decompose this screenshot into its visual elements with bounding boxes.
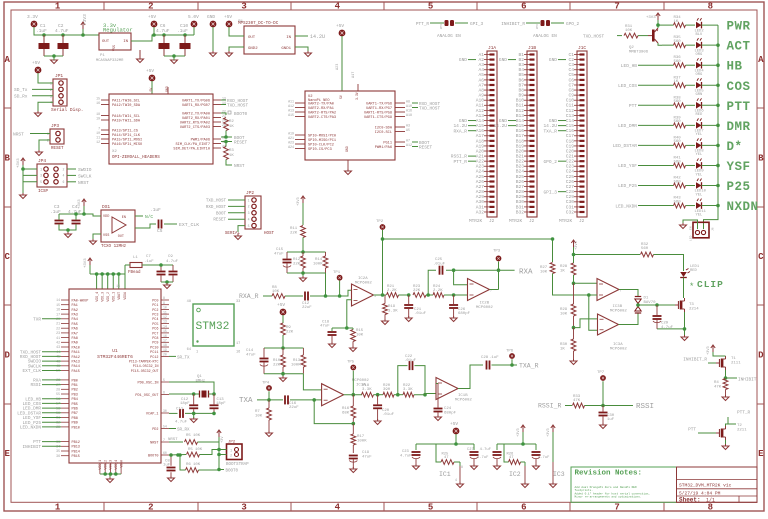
row label C left: [4, 252, 10, 262]
resistor R11 22K: [290, 226, 305, 253]
wire vdd stub: [106, 272, 110, 289]
capacitor C20 .01uF: [373, 395, 395, 420]
wire r13 to plus: [303, 374, 321, 390]
node RXA: [519, 269, 533, 277]
supply pad 5.0V: [188, 14, 199, 35]
svg-text:PTT: PTT: [727, 100, 751, 114]
svg-text:2: 2: [148, 503, 153, 513]
svg-text:4: 4: [335, 2, 341, 12]
svg-text:2111: 2111: [731, 362, 741, 366]
label BOOT0 x2: [221, 111, 248, 117]
svg-text:SWDIO: SWDIO: [78, 167, 92, 173]
svg-text:R21: R21: [387, 285, 395, 289]
svg-text:C23: C23: [566, 164, 575, 170]
capacitor C18 47uF: [320, 321, 337, 344]
svg-text:R22: R22: [403, 384, 411, 388]
resistor R2 1K: [224, 118, 235, 131]
svg-text:B19: B19: [516, 143, 525, 149]
svg-text:PC5: PC5: [152, 323, 158, 327]
svg-text:3.3K: 3.3K: [388, 310, 398, 314]
svg-text:PTT_R: PTT_R: [453, 159, 467, 165]
svg-text:PC7: PC7: [152, 332, 158, 336]
svg-text:B18: B18: [516, 138, 525, 144]
wire LED_NXDN to R43: [638, 205, 674, 207]
svg-text:R20: R20: [383, 384, 391, 388]
svg-text:20: 20: [163, 353, 167, 357]
supply pad GND dcdc: [207, 14, 216, 27]
svg-text:36: 36: [56, 454, 60, 458]
svg-text:TCXO 12MHz: TCXO 12MHz: [101, 245, 127, 249]
svg-text:A12: A12: [288, 104, 294, 108]
node GPO_2 at J1C: [543, 159, 557, 165]
wire jp1 gnd: [38, 102, 53, 112]
svg-text:A13: A13: [288, 109, 294, 113]
svg-text:C18: C18: [566, 138, 575, 144]
svg-text:CLIP: CLIP: [697, 279, 724, 290]
oscillator DS1 TCXO 12MHz: [101, 204, 135, 249]
resistor R30 1K: [560, 328, 576, 360]
svg-text:PA0-WKUP: PA0-WKUP: [72, 299, 89, 303]
svg-text:I2C0-SDA: I2C0-SDA: [375, 126, 393, 130]
wire jp2 gnd: [238, 226, 245, 232]
svg-text:19: 19: [96, 117, 100, 121]
svg-text:+5V: +5V: [146, 68, 154, 74]
svg-text:14.2U: 14.2U: [543, 123, 557, 129]
column label 1 bottom: [55, 503, 61, 513]
column label 6 bottom: [521, 503, 526, 513]
svg-text:4.7uF: 4.7uF: [55, 28, 69, 34]
svg-text:R37: R37: [674, 76, 682, 80]
resistor R21 2.2K: [387, 285, 399, 297]
svg-text:PC13-TAMPER-RTC: PC13-TAMPER-RTC: [129, 360, 159, 364]
svg-text:B24: B24: [516, 169, 525, 175]
label HB: [727, 60, 743, 74]
wire LED_DMR to R39: [638, 124, 674, 126]
svg-text:RSSI: RSSI: [636, 403, 654, 411]
ground c18: [329, 342, 336, 348]
svg-text:P1: P1: [100, 54, 105, 58]
svg-text:INHIBIT: INHIBIT: [23, 445, 42, 450]
test point TP5: [347, 361, 356, 395]
ground c34: [65, 232, 72, 238]
svg-text:VSS: VSS: [103, 234, 109, 238]
column label 2 bottom: [148, 503, 153, 513]
svg-text:C27: C27: [467, 448, 474, 452]
svg-text:3.3K: 3.3K: [362, 388, 372, 392]
wire u1 LED_HB: [42, 398, 61, 400]
ground c21: [405, 316, 412, 322]
ground: [51, 56, 58, 64]
svg-text:B9: B9: [518, 93, 524, 99]
svg-text:MCP6002: MCP6002: [355, 282, 372, 286]
supply pad 3.3V: [27, 14, 38, 27]
svg-text:B6: B6: [518, 77, 524, 83]
svg-text:A24: A24: [476, 169, 485, 175]
ic X2 OPI-ZEROALL_HEADERS: [96, 86, 226, 164]
wire c34 top: [59, 206, 84, 220]
ground r15: [350, 346, 357, 352]
svg-text:IN: IN: [123, 40, 128, 44]
column label 2 top: [148, 2, 153, 12]
svg-text:C13: C13: [217, 398, 225, 402]
wire t2 gnd: [725, 440, 727, 445]
wire fbead right: [142, 264, 173, 266]
resistor R34 1K: [674, 16, 686, 27]
svg-text:A4: A4: [478, 67, 484, 73]
svg-text:Serial Disp.: Serial Disp.: [51, 107, 83, 113]
svg-text:TP3: TP3: [493, 250, 501, 254]
svg-text:R38: R38: [674, 96, 682, 100]
svg-text:.01uF: .01uF: [414, 312, 427, 316]
svg-text:RSSI: RSSI: [30, 383, 41, 388]
svg-text:PC14-OSC32_IN: PC14-OSC32_IN: [133, 364, 159, 368]
wire ic3b out: [619, 290, 638, 297]
svg-text:B5: B5: [518, 72, 524, 78]
wire u1 TXD_HOST: [42, 351, 61, 353]
svg-text:C: C: [4, 252, 10, 262]
svg-text:RESET: RESET: [51, 147, 64, 151]
svg-text:A16: A16: [406, 109, 412, 113]
LED LED10 YEL: [695, 179, 707, 198]
wire J1A pin A2 net GND: [468, 59, 476, 61]
wire jp2 TXD_HOST: [228, 199, 245, 201]
wire r29 ic3a minus: [572, 319, 597, 330]
wire LED3 bus: [702, 43, 720, 47]
wire r18 r20: [374, 393, 384, 397]
svg-text:A8: A8: [478, 87, 484, 93]
svg-text:14.2U: 14.2U: [493, 123, 507, 129]
svg-text:NXDN: NXDN: [727, 200, 759, 214]
svg-text:IC1: IC1: [439, 471, 451, 478]
svg-text:15: 15: [163, 329, 167, 333]
ground ic3: [550, 482, 557, 488]
svg-text:560: 560: [674, 60, 682, 64]
svg-text:J1B: J1B: [528, 45, 536, 51]
svg-text:.1uF: .1uF: [489, 356, 499, 360]
svg-text:A29: A29: [476, 194, 485, 200]
wire c28 txa_r: [492, 363, 518, 367]
svg-text:.1uF: .1uF: [36, 28, 47, 34]
svg-text:+3V3: +3V3: [78, 199, 82, 209]
wire inhibit_r to jp6: [526, 22, 540, 24]
wire ic2a out: [374, 293, 387, 297]
svg-text:J2: J2: [529, 219, 535, 224]
svg-text:+3V3: +3V3: [297, 197, 301, 206]
svg-text:TXD_HOST: TXD_HOST: [419, 107, 440, 112]
svg-text:J6: J6: [712, 227, 715, 231]
node RSSI_R: [538, 403, 562, 410]
svg-text:22K: 22K: [286, 331, 294, 335]
node TXA_R: [519, 363, 539, 370]
svg-text:BOOT: BOOT: [216, 212, 227, 216]
wire u1 RXA: [42, 379, 61, 381]
node PTT u1: [33, 440, 41, 445]
svg-text:C12: C12: [566, 108, 575, 114]
ground r7: [266, 431, 273, 437]
capacitor C11 4.7uF: [175, 408, 188, 425]
resistor R32 560: [641, 243, 654, 257]
node GND at J1B: [499, 57, 507, 63]
wire J1A pin A22 net PTT_R: [468, 160, 476, 162]
row label A right: [758, 55, 764, 65]
transistor T3 2214: [675, 298, 699, 312]
svg-text:PA3: PA3: [72, 314, 78, 318]
resistor R12 22K: [293, 252, 305, 273]
wire u2 txd: [412, 107, 418, 109]
svg-text:+3V3: +3V3: [707, 346, 711, 355]
svg-text:1K: 1K: [560, 270, 565, 274]
svg-text:2211: 2211: [737, 429, 747, 433]
wire ic1b out: [458, 365, 483, 389]
wire rssi_r: [565, 405, 572, 407]
wire feedback ic2b: [428, 268, 514, 295]
svg-text:5/27/19 4:04 PM: 5/27/19 4:04 PM: [679, 491, 721, 497]
svg-text:4.7uF: 4.7uF: [156, 28, 170, 34]
connector J6 LED EN: [690, 222, 715, 241]
supply arrow +3V3 u1: [84, 258, 92, 274]
svg-text:PD2: PD2: [152, 428, 158, 432]
ground c30: [600, 423, 607, 429]
label TXD_HOST u2: [419, 107, 440, 112]
capacitor C9 4.7uF: [166, 255, 179, 282]
svg-text:HB: HB: [727, 60, 743, 74]
svg-text:L1: L1: [133, 256, 138, 260]
svg-text:30: 30: [163, 409, 167, 413]
resistor R28 1K: [560, 263, 576, 283]
resistor R13 100K: [291, 348, 306, 374]
svg-text:YEL: YEL: [696, 173, 704, 177]
wire u2 reset: [412, 146, 418, 148]
svg-text:PC4: PC4: [152, 318, 158, 322]
wire jp3 nrst: [30, 133, 50, 135]
svg-text:A24: A24: [288, 145, 294, 149]
svg-text:ORG: ORG: [696, 73, 704, 77]
svg-text:2: 2: [63, 167, 65, 171]
svg-text:8: 8: [461, 465, 463, 469]
row label A left: [4, 55, 10, 65]
wire J1A pin A16 net RXA_R: [468, 130, 476, 132]
svg-text:R42: R42: [674, 177, 682, 181]
svg-text:3.3V: 3.3V: [355, 92, 359, 100]
capacitor C4 4.7uF: [68, 204, 82, 224]
wire t3 gnd: [657, 312, 686, 336]
svg-text:OUT: OUT: [118, 235, 124, 239]
transistor Q2 MMBT3906: [629, 25, 662, 54]
svg-text:TXD_HOST: TXD_HOST: [583, 35, 604, 40]
svg-text:PA2: PA2: [72, 309, 78, 313]
ground c24: [435, 415, 442, 421]
wire LED11 bus: [702, 204, 720, 208]
svg-text:B14: B14: [516, 118, 525, 124]
svg-text:R34: R34: [674, 16, 682, 20]
wire LED2 bus: [702, 24, 719, 26]
svg-text:23: 23: [56, 331, 60, 335]
svg-text:C11: C11: [176, 408, 184, 412]
node PTT_R right: [726, 411, 751, 425]
svg-text:PA1: PA1: [72, 304, 78, 308]
svg-text:J2: J2: [579, 219, 585, 224]
wire bootstrap rail: [217, 437, 226, 471]
svg-text:VDD_4: VDD_4: [95, 292, 99, 302]
svg-text:B2: B2: [518, 57, 524, 63]
svg-text:+3V3: +3V3: [82, 14, 88, 25]
svg-text:A27: A27: [476, 184, 485, 190]
svg-text:B26: B26: [516, 179, 525, 185]
label TXD_HOST x2: [227, 104, 248, 109]
wire LED9 bus: [702, 164, 720, 168]
svg-text:VCAP_1: VCAP_1: [146, 412, 159, 416]
svg-text:10K: 10K: [272, 290, 280, 294]
svg-text:4.7uF: 4.7uF: [538, 456, 550, 460]
svg-text:B23: B23: [516, 164, 525, 170]
capacitor C10 .1uF: [177, 23, 191, 56]
supply pad +5V dcdc: [224, 14, 232, 27]
svg-text:GND: GND: [459, 118, 467, 124]
ground led bus: [680, 223, 687, 229]
jumper JP5 pads: [440, 20, 454, 29]
svg-text:LED1: LED1: [690, 265, 700, 269]
node LED_DMR u1: [23, 407, 42, 412]
wire J1C pin C14 net GND: [558, 120, 566, 122]
resistor R43 560: [674, 197, 686, 208]
svg-text:.1uF: .1uF: [144, 260, 154, 264]
wire R42 LED10: [686, 185, 696, 187]
svg-text:BAV70: BAV70: [644, 301, 657, 305]
svg-text:5: 5: [248, 224, 250, 228]
svg-text:PB14: PB14: [72, 450, 80, 454]
svg-text:18pF: 18pF: [180, 402, 190, 406]
svg-text:14: 14: [163, 324, 167, 328]
supply arrow +3V3 ic3: [547, 425, 555, 462]
node LED_P25 u1: [23, 421, 42, 426]
svg-text:B22: B22: [516, 159, 525, 165]
svg-text:R29: R29: [560, 308, 568, 312]
svg-text:B25: B25: [516, 174, 525, 180]
svg-text:+5V: +5V: [277, 302, 285, 308]
label TXD_HOST led: [583, 35, 604, 40]
supply arrow +3V3 ic2: [517, 425, 525, 444]
svg-text:Q1: Q1: [197, 375, 202, 379]
svg-text:560: 560: [674, 100, 682, 104]
row label E right: [758, 449, 764, 459]
power pins IC3: [553, 462, 565, 483]
svg-text:A: A: [758, 55, 764, 65]
wire dcdc gnd1: [295, 47, 308, 52]
svg-text:17: 17: [56, 312, 60, 316]
wire caps2 gnd: [164, 55, 185, 57]
junction: [162, 33, 166, 37]
svg-text:C22: C22: [566, 159, 575, 165]
svg-text:A11: A11: [476, 103, 485, 109]
ground JP2: [235, 234, 242, 240]
svg-text:7: 7: [98, 127, 100, 131]
label SWCLK: [78, 173, 92, 179]
LED LED9 YEL: [695, 158, 705, 177]
svg-text:LED_HB: LED_HB: [621, 63, 638, 69]
svg-text:JP5: JP5: [440, 24, 443, 30]
svg-text:10K: 10K: [195, 448, 203, 452]
svg-text:PD0_OSC_IN: PD0_OSC_IN: [137, 381, 158, 385]
svg-text:.01uF: .01uF: [404, 359, 417, 363]
svg-text:PA13: PA13: [72, 361, 80, 365]
wire R35 LED3: [686, 44, 696, 46]
wire LED10 bus: [702, 184, 720, 188]
svg-text:1: 1: [40, 167, 42, 171]
svg-text:+3V3: +3V3: [575, 241, 579, 250]
column label 4 bottom: [335, 503, 341, 513]
svg-text:18pF: 18pF: [216, 402, 226, 406]
wire J1C pin C22 net GPO_2: [558, 160, 566, 162]
svg-text:54: 54: [163, 425, 167, 429]
row label C right: [758, 252, 764, 262]
svg-text:P25: P25: [727, 180, 751, 194]
svg-text:R30: R30: [560, 343, 568, 347]
ground dcdc l: [226, 51, 233, 57]
supply arrow +3V3 jp4: [17, 158, 25, 168]
wire jp2 RESET: [228, 218, 245, 220]
capacitor C3 .1uF: [50, 204, 64, 224]
svg-text:A18: A18: [476, 138, 485, 144]
svg-text:B16: B16: [516, 128, 525, 134]
svg-text:+5V: +5V: [336, 23, 344, 29]
svg-text:1: 1: [196, 351, 198, 355]
svg-text:ORG: ORG: [696, 53, 704, 57]
svg-text:C20: C20: [566, 148, 575, 154]
capacitor C16 22uF: [284, 395, 299, 410]
wire LED5 bus: [702, 83, 720, 87]
svg-text:19: 19: [163, 348, 167, 352]
svg-text:OUT: OUT: [102, 40, 110, 44]
svg-text:LED_HB: LED_HB: [25, 397, 41, 402]
svg-text:33: 33: [236, 300, 240, 304]
svg-text:MPS2307_DC-TO-DC: MPS2307_DC-TO-DC: [238, 22, 279, 26]
svg-text:SWDIO: SWDIO: [28, 360, 42, 365]
row label E left: [4, 449, 10, 459]
column label 8 bottom: [708, 503, 713, 513]
svg-text:PB1: PB1: [72, 384, 78, 388]
label CLIP: [689, 279, 724, 292]
svg-text:4: 4: [335, 503, 341, 513]
wire u2 gnd: [347, 160, 349, 170]
wire r33 rssi: [585, 404, 634, 408]
svg-text:R3: R3: [229, 149, 234, 153]
svg-text:A28: A28: [476, 189, 485, 195]
svg-text:22uF: 22uF: [289, 406, 299, 410]
label INHIBIT_R top: [501, 22, 525, 27]
node RSSI_R at J1A: [451, 154, 468, 160]
ground JP1: [35, 111, 42, 117]
wire rail down ic3a: [589, 295, 597, 330]
svg-text:GND: GND: [549, 118, 557, 124]
svg-text:GND: GND: [499, 57, 507, 63]
svg-text:TXA: TXA: [239, 397, 253, 405]
svg-text:1K: 1K: [674, 20, 679, 24]
svg-text:A30: A30: [476, 199, 485, 205]
svg-text:PC8: PC8: [152, 337, 158, 341]
svg-text:47K: 47K: [573, 399, 581, 403]
wire c34 bot: [59, 224, 76, 233]
node INHIBIT: [738, 378, 757, 383]
supply arrow +3V3 ic3: [571, 240, 579, 263]
resistor R18 3.3K: [362, 384, 374, 397]
svg-text:C10: C10: [566, 98, 575, 104]
svg-text:B15: B15: [516, 123, 525, 129]
node RXA u1: [33, 379, 41, 384]
svg-text:18: 18: [96, 112, 100, 116]
ground U2: [345, 169, 352, 175]
svg-text:C11: C11: [566, 103, 575, 109]
svg-text:R40: R40: [674, 136, 682, 140]
